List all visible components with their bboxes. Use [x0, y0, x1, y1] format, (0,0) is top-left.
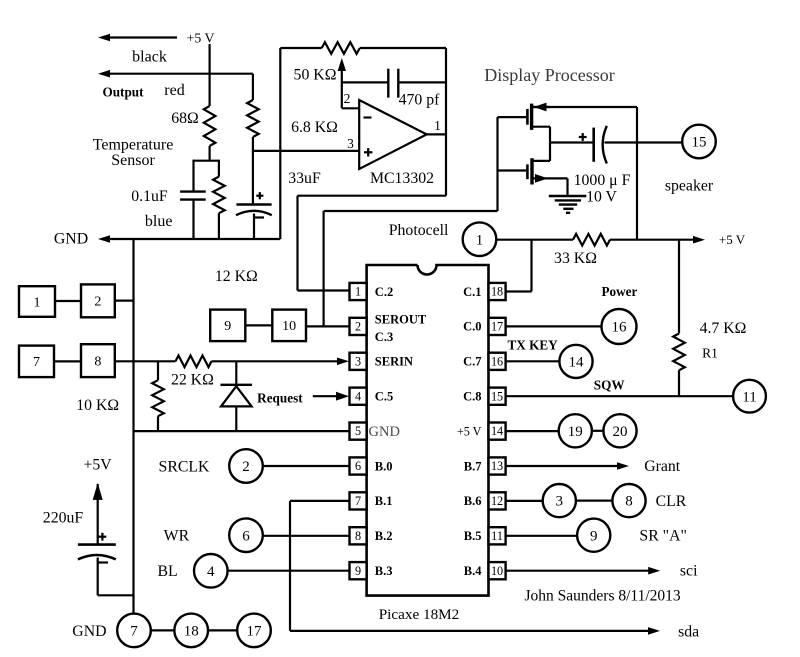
wire mid node to cap	[550, 141, 593, 143]
capacitor C 220uF curved plate	[78, 555, 116, 559]
wire feedback top right	[360, 47, 446, 49]
svg-text:C.7: C.7	[463, 355, 481, 369]
wire node3-node8	[576, 500, 613, 502]
svg-text:B.6: B.6	[464, 494, 482, 508]
svg-text:B.1: B.1	[375, 494, 393, 508]
resistor 6.8Kohm	[247, 100, 259, 137]
node 8 CLR	[612, 484, 645, 517]
pin 6 box	[350, 457, 367, 474]
capacitor C 33uF minus tick	[255, 216, 264, 218]
wire node2 to pin6	[263, 465, 350, 467]
svg-text:Display Processor: Display Processor	[484, 65, 614, 85]
wire Q2 source down	[566, 178, 568, 196]
svg-text:R1: R1	[702, 346, 718, 361]
wire op-amp output	[427, 133, 446, 135]
svg-text:17: 17	[491, 320, 503, 334]
svg-text:33uF: 33uF	[288, 170, 321, 187]
svg-text:GND: GND	[54, 231, 88, 248]
wire main GND vertical	[132, 239, 134, 614]
node 2 SRCLK	[229, 449, 263, 483]
svg-text:14: 14	[491, 424, 503, 438]
svg-text:8: 8	[94, 354, 101, 369]
svg-text:8: 8	[625, 494, 633, 510]
pin 13 box	[489, 457, 506, 474]
svg-text:B.5: B.5	[464, 529, 482, 543]
wire left branch to cap 0.1uF	[192, 160, 194, 192]
wire box2 to GND vertical	[115, 300, 134, 302]
wire SEROUT junction up	[323, 211, 325, 326]
resistor 68ohm	[204, 106, 216, 146]
capacitor C 0.1uF plates	[180, 190, 206, 192]
svg-text:1: 1	[34, 295, 41, 310]
wire box8 to R22K	[115, 360, 176, 362]
svg-text:33 KΩ: 33 KΩ	[554, 250, 597, 267]
pin 3 box	[350, 353, 367, 370]
svg-text:Picaxe 18M2: Picaxe 18M2	[379, 606, 460, 623]
svg-text:1: 1	[434, 118, 441, 133]
wire node6 to pin8	[263, 535, 350, 537]
svg-text:50 KΩ: 50 KΩ	[294, 67, 337, 84]
pot wiper arrow	[341, 70, 343, 108]
svg-text:10 KΩ: 10 KΩ	[76, 397, 119, 414]
svg-text:C.3: C.3	[375, 330, 393, 344]
pin 1 box	[350, 283, 367, 300]
capacitor C 220uF minus tick	[99, 561, 109, 563]
wire pin13 Grant arrow	[506, 465, 623, 467]
svg-text:Temperature: Temperature	[93, 137, 174, 154]
svg-text:9: 9	[224, 319, 231, 334]
svg-text:Photocell: Photocell	[389, 222, 449, 239]
svg-text:C.0: C.0	[463, 320, 481, 334]
node 1 photocell	[463, 222, 497, 256]
wire wiper to cap 470pf	[342, 81, 388, 83]
wire +5V arrow up	[97, 484, 99, 545]
wire pin18 to +5V rail	[506, 290, 532, 292]
svg-text:B.0: B.0	[375, 459, 393, 473]
pin 17 box	[489, 318, 506, 335]
svg-text:sci: sci	[680, 563, 698, 580]
wire +5V rail down to R 68ohm	[209, 44, 211, 106]
svg-text:470 pf: 470 pf	[399, 92, 441, 109]
wire Request arrow	[313, 395, 343, 397]
wire SEROUT to gates	[324, 210, 498, 212]
svg-text:22 KΩ: 22 KΩ	[171, 372, 214, 389]
svg-text:10: 10	[491, 564, 503, 578]
svg-text:14: 14	[569, 355, 585, 371]
connector box 8	[81, 344, 115, 377]
ground symbol	[549, 195, 587, 197]
node 19	[559, 414, 592, 447]
svg-text:Request: Request	[257, 391, 303, 406]
svg-text:2: 2	[344, 91, 351, 106]
wire op-amp out bottom horizontal	[298, 195, 447, 197]
svg-text:SRCLK: SRCLK	[159, 459, 211, 476]
wire GND bus with arrow	[103, 238, 280, 240]
wire node18-node17	[208, 629, 237, 631]
connector box 10	[272, 310, 306, 342]
node 4 BL	[194, 554, 228, 588]
svg-text:11: 11	[491, 529, 503, 543]
svg-text:3: 3	[347, 136, 354, 151]
capacitor C 33uF curved plate	[236, 211, 272, 215]
svg-text:15: 15	[692, 135, 707, 151]
capacitor C 470pf	[387, 69, 389, 98]
node 17	[237, 614, 271, 648]
pin 5 box	[350, 423, 367, 440]
wire C33uF to GND bus	[253, 214, 255, 240]
svg-text:12 KΩ: 12 KΩ	[215, 268, 258, 285]
capacitor C 220uF plus sign	[99, 536, 107, 538]
svg-text:BL: BL	[158, 563, 178, 580]
svg-text:C.2: C.2	[375, 285, 393, 299]
svg-text:220uF: 220uF	[43, 510, 84, 527]
svg-text:B.2: B.2	[375, 529, 393, 543]
wire cap to speaker circle 15	[605, 141, 683, 143]
resistor 33Kohm	[573, 234, 610, 246]
svg-text:7: 7	[33, 355, 40, 370]
svg-text:4: 4	[355, 389, 361, 403]
capacitor C 1000uF plus sign	[579, 136, 587, 138]
wire gates vertical	[496, 117, 498, 211]
svg-text:black: black	[132, 49, 167, 66]
wire SERIN line with arrow	[212, 360, 344, 362]
pin 15 box	[489, 388, 506, 405]
transistor Q1 upper MOSFET	[530, 104, 533, 130]
svg-text:B.3: B.3	[375, 564, 393, 578]
svg-text:6.8 KΩ: 6.8 KΩ	[291, 119, 338, 136]
svg-text:0.1uF: 0.1uF	[131, 188, 168, 205]
svg-text:10: 10	[282, 319, 296, 334]
wire R33K to +5V arrow	[610, 239, 699, 241]
svg-text:WR: WR	[164, 528, 190, 545]
pin 18 box	[489, 283, 506, 300]
wire pin10 sci arrow	[506, 570, 654, 572]
wire Q2 source with arrow	[532, 177, 568, 179]
wire feedback top left	[280, 47, 321, 49]
connector box 7	[19, 346, 54, 378]
node 14 TX KEY	[559, 345, 592, 378]
wire to IC pin1 C.2	[296, 196, 298, 291]
svg-text:8: 8	[355, 529, 361, 543]
wire pin17 to node16	[506, 325, 602, 327]
wire photocell to R33K	[496, 239, 573, 241]
svg-text:18: 18	[491, 285, 503, 299]
op-amp plus sign	[364, 151, 372, 153]
connector box 9	[210, 310, 245, 342]
svg-text:10 V: 10 V	[586, 189, 617, 206]
svg-text:4: 4	[207, 564, 215, 580]
wire node19-node20	[592, 430, 604, 432]
wire R68 to sensor RC top	[209, 146, 211, 161]
svg-text:B.7: B.7	[464, 459, 482, 473]
node 9 SR A	[577, 519, 610, 552]
node 7 GND	[117, 614, 151, 648]
wire display right vertical	[636, 107, 638, 240]
pin 12 box	[489, 492, 506, 509]
svg-text:C.1: C.1	[463, 285, 481, 299]
svg-text:CLR: CLR	[656, 493, 687, 510]
pin 14 box	[489, 423, 506, 440]
svg-text:4.7 KΩ: 4.7 KΩ	[700, 320, 747, 337]
svg-text:11: 11	[742, 389, 756, 405]
wire box7-box8	[54, 360, 81, 362]
svg-text:6: 6	[242, 528, 250, 544]
node 15 speaker	[682, 125, 716, 159]
connector box 1	[19, 286, 55, 317]
wire Q1 drain to +5V rail with arrow	[533, 106, 637, 108]
wire R6.8K to node pin3	[252, 137, 254, 205]
node 6 WR	[229, 518, 263, 552]
svg-text:Sensor: Sensor	[111, 152, 155, 169]
op-amp minus sign	[364, 116, 372, 118]
svg-text:2: 2	[242, 459, 250, 475]
svg-text:GND: GND	[369, 424, 400, 440]
svg-text:1000 μ F: 1000 μ F	[574, 172, 631, 189]
svg-text:+5V: +5V	[83, 457, 112, 474]
connector box 2	[81, 284, 115, 317]
svg-text:68Ω: 68Ω	[171, 110, 199, 127]
wire node4 to pin9	[228, 570, 350, 572]
resistor 22Kohm	[176, 356, 212, 368]
wire output node vertical	[445, 48, 447, 196]
svg-text:18: 18	[184, 624, 199, 640]
svg-text:+5 V: +5 V	[457, 425, 482, 439]
thermistor element (sensor)	[218, 160, 220, 177]
node 18	[174, 614, 208, 648]
pin 7 box	[350, 492, 367, 509]
svg-text:16: 16	[491, 354, 503, 368]
svg-text:Power: Power	[601, 284, 637, 299]
svg-text:5: 5	[355, 424, 361, 438]
svg-text:MC13302: MC13302	[370, 170, 434, 187]
op-amp U1 MC13302 triangle	[359, 100, 427, 169]
pin 9 box	[350, 562, 367, 579]
svg-text:15: 15	[491, 389, 503, 403]
svg-text:sda: sda	[678, 624, 699, 641]
svg-text:20: 20	[613, 424, 628, 440]
wire box9-box10	[245, 324, 272, 326]
wire red node down	[252, 74, 254, 100]
wire box1-box2	[55, 300, 81, 302]
svg-text:19: 19	[568, 424, 583, 440]
svg-text:17: 17	[247, 624, 263, 640]
wire C220uF to GND node	[97, 558, 99, 596]
node 20	[603, 414, 636, 447]
svg-text:9: 9	[355, 564, 361, 578]
svg-text:speaker: speaker	[665, 178, 714, 195]
svg-text:7: 7	[130, 624, 138, 640]
svg-text:GND: GND	[72, 623, 106, 640]
svg-text:6: 6	[355, 459, 361, 473]
IC U2 Picaxe 18M2 body	[367, 265, 489, 596]
svg-text:Grant: Grant	[644, 458, 681, 475]
resistor R1 4.7Kohm	[673, 334, 685, 371]
svg-text:SR "A": SR "A"	[639, 528, 687, 545]
node 11 SQW	[733, 380, 766, 413]
svg-text:9: 9	[590, 528, 598, 544]
svg-text:13: 13	[491, 459, 503, 473]
transistor Q2 lower MOSFET	[530, 158, 533, 184]
pin 2 box	[350, 318, 367, 335]
wire pin11 to node9	[506, 535, 577, 537]
wire cap 0.1uF to GND bus	[192, 200, 194, 239]
node 16 Power	[602, 309, 637, 344]
wire GND pin5 line	[134, 430, 350, 432]
svg-text:16: 16	[612, 320, 628, 336]
wire non-inverting input	[253, 150, 359, 152]
svg-text:blue: blue	[145, 213, 173, 230]
wire pin14 to node19	[506, 430, 559, 432]
capacitor C 220uF straight plate	[78, 543, 116, 546]
wire pin12 to node3	[506, 500, 543, 502]
svg-text:12: 12	[491, 494, 503, 508]
svg-text:TX KEY: TX KEY	[507, 338, 558, 353]
svg-text:1: 1	[476, 232, 484, 248]
wire inverting input	[342, 107, 359, 109]
svg-text:SQW: SQW	[594, 378, 625, 393]
wire Output lead (red) with arrow	[103, 73, 253, 75]
svg-text:C.8: C.8	[463, 390, 481, 404]
resistor 10Kohm branch	[157, 361, 159, 380]
wire sda line with arrow	[290, 630, 654, 632]
wire cap 470pf to output node	[399, 81, 446, 83]
pin 4 box	[350, 388, 367, 405]
svg-text:3: 3	[556, 494, 564, 510]
wire 4.7K branch upper	[678, 240, 680, 334]
wire op-amp feedback loop left vertical	[279, 48, 281, 239]
svg-text:2: 2	[355, 320, 361, 334]
pin 11 box	[489, 527, 506, 544]
svg-text:C.5: C.5	[375, 390, 393, 404]
wire pin15 SQW line	[506, 395, 734, 397]
svg-text:John Saunders 8/11/2013: John Saunders 8/11/2013	[525, 588, 681, 605]
svg-text:B.4: B.4	[464, 564, 482, 578]
potentiometer 50Kohm	[322, 42, 360, 54]
capacitor C 1000uF straight plate	[592, 128, 595, 162]
svg-text:+5 V: +5 V	[187, 31, 215, 46]
capacitor C 33uF plus sign	[256, 195, 263, 197]
diode D1	[235, 361, 237, 385]
svg-text:7: 7	[355, 494, 361, 508]
pin 10 box	[489, 562, 506, 579]
svg-text:Output: Output	[102, 85, 144, 100]
wire node7-node18	[151, 629, 175, 631]
wire +5V lead (black) with arrow	[103, 36, 177, 38]
capacitor C 1000uF curved plate	[603, 126, 607, 164]
svg-text:SEROUT: SEROUT	[375, 312, 427, 326]
svg-text:SERIN: SERIN	[375, 355, 413, 369]
wire pin7 B.1 loop	[290, 500, 350, 502]
capacitor C 33uF plus plate	[236, 203, 271, 206]
pin 8 box	[350, 527, 367, 544]
svg-text:1: 1	[355, 285, 361, 299]
wire sensor RC top bar	[193, 160, 219, 162]
pin 16 box	[489, 353, 506, 370]
wire R1 to SQW line	[678, 370, 680, 396]
svg-text:red: red	[164, 82, 184, 99]
wire box10 to pin2 SEROUT	[306, 325, 350, 327]
svg-text:+5 V: +5 V	[719, 232, 746, 247]
svg-text:2: 2	[94, 295, 101, 310]
wire pin16 to node14	[506, 360, 560, 362]
svg-text:3: 3	[355, 354, 361, 368]
node 3	[543, 484, 576, 517]
